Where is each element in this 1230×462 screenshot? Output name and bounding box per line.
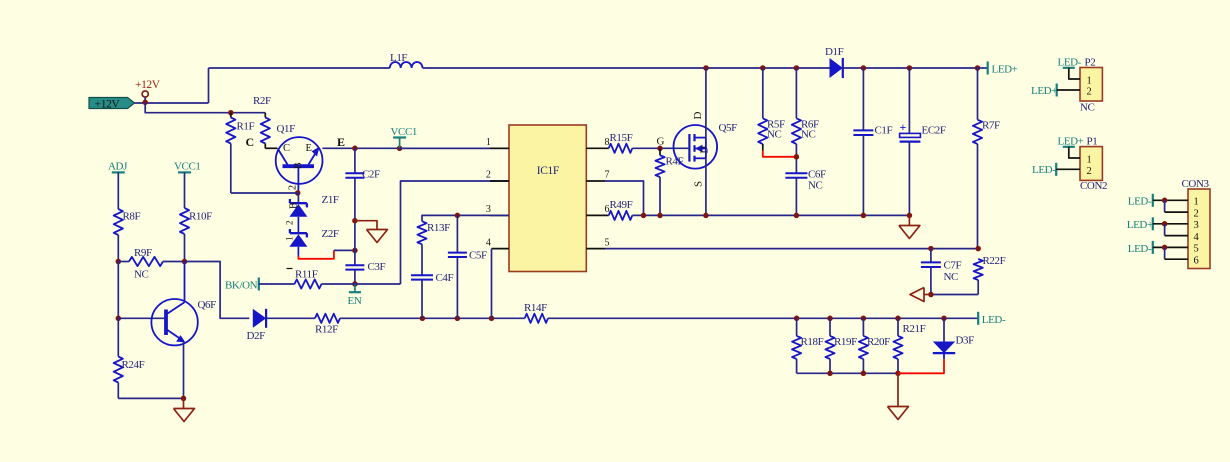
node emitter/ground (181, 396, 187, 402)
svg-text:2: 2 (1194, 208, 1199, 219)
svg-text:LED+: LED+ (1058, 135, 1084, 147)
resistor R18F (796, 318, 798, 336)
svg-text:7: 7 (605, 170, 610, 181)
resistor R10F (180, 208, 189, 234)
node R5F top (760, 65, 766, 71)
resistor R5F (762, 68, 764, 118)
svg-text:1: 1 (1194, 197, 1199, 208)
zener Z2F (290, 232, 307, 234)
node VCC1 stub (397, 146, 403, 152)
svg-text:6: 6 (1194, 255, 1199, 266)
wire pin2 riser (401, 181, 510, 284)
transistor Q1F (276, 137, 323, 184)
resistor R13F (417, 221, 426, 244)
ground left pointing (910, 288, 924, 302)
wire pin5 rail (605, 248, 978, 250)
wire top rail left (209, 67, 390, 69)
svg-text:+12V: +12V (135, 79, 161, 91)
svg-text:D3F: D3F (956, 335, 975, 347)
svg-text:R49F: R49F (610, 199, 633, 211)
wire resistor bank bottom (797, 372, 898, 374)
node R22F top (975, 246, 981, 252)
node R18F top (794, 316, 800, 322)
svg-text:E: E (337, 135, 345, 149)
wire ADJ column down (117, 262, 119, 319)
node ground branch (352, 218, 358, 224)
wire R2F to Q1F collector (265, 147, 277, 149)
svg-text:R2F: R2F (253, 95, 271, 107)
wire CON3 pin2 (1164, 200, 1166, 212)
svg-text:Q1F: Q1F (277, 123, 296, 135)
svg-text:D: D (692, 112, 704, 120)
wire red to C column (334, 249, 355, 251)
wire +12V to riser (135, 102, 209, 104)
power port +12V circle (142, 91, 148, 97)
svg-text:R14F: R14F (524, 302, 547, 314)
svg-text:LED-: LED- (982, 314, 1006, 326)
pin 6 stub (586, 214, 608, 216)
wire +12V down branch (145, 102, 265, 112)
svg-text:R8F: R8F (123, 211, 141, 223)
wire CON3 pin6 (1164, 247, 1166, 259)
svg-text:5: 5 (605, 237, 610, 248)
svg-text:Q5F: Q5F (719, 122, 738, 134)
net label EN stub (354, 284, 356, 292)
pin mark R11F (287, 268, 293, 270)
node EN junction (352, 281, 358, 287)
resistor R22F (974, 259, 983, 280)
wire P2 pin2 (1057, 89, 1080, 91)
svg-text:EC2F: EC2F (922, 125, 946, 137)
ground main (908, 215, 910, 225)
diode D3F (943, 318, 945, 341)
pin 5 stub (586, 248, 605, 250)
net label LED- bar bottom (977, 312, 979, 325)
wire Q6F emitter (183, 342, 185, 398)
resistor R49F (609, 211, 633, 220)
svg-text:C: C (283, 143, 290, 154)
wire pin3 (422, 215, 509, 221)
wire riser to top rail (208, 68, 210, 103)
IC IC1F box (509, 125, 586, 272)
resistor R12F (315, 314, 340, 323)
svg-text:Z1F: Z1F (322, 194, 339, 206)
net label LED+ bar (987, 62, 989, 75)
node R6F bottom red (794, 154, 800, 160)
svg-text:Z2F: Z2F (322, 228, 339, 240)
svg-text:VCC1: VCC1 (174, 161, 201, 173)
svg-text:R7F: R7F (982, 120, 1000, 132)
node +12V junction (142, 100, 148, 106)
capacitor EC2F (908, 68, 910, 133)
node pin4 bottom (489, 316, 495, 322)
node CON3 b (1162, 221, 1168, 227)
wire LED- stub (944, 317, 978, 319)
pin 2 stub (490, 180, 509, 182)
resistor R4F (659, 148, 661, 155)
wire emitter to E node (322, 147, 509, 149)
svg-text:R20F: R20F (867, 336, 890, 348)
svg-text:C7F: C7F (944, 260, 962, 272)
svg-text:5: 5 (1194, 244, 1199, 255)
resistor R11F (295, 279, 322, 288)
svg-text:LED-: LED- (1032, 164, 1056, 176)
svg-text:R19F: R19F (834, 336, 857, 348)
wire P1 pin1 (1069, 147, 1080, 158)
node C6F bottom (794, 213, 800, 219)
svg-text:C1F: C1F (875, 125, 893, 137)
svg-text:NC: NC (767, 129, 782, 141)
node R21F bottom (895, 371, 901, 377)
svg-text:1: 1 (1087, 75, 1092, 86)
pin 3 stub (490, 214, 509, 216)
node C3F top junction (352, 248, 358, 254)
capacitor C6F (785, 172, 807, 174)
diode D1F (830, 58, 843, 78)
svg-text:P2: P2 (1085, 56, 1096, 68)
svg-text:R4F: R4F (666, 156, 684, 168)
ground bank (897, 373, 899, 406)
capacitor C5F (456, 215, 458, 252)
node CON3 a (1162, 198, 1168, 204)
connector P2 box (1080, 68, 1102, 102)
node R19F bottom (827, 371, 833, 377)
wire pin4 riser (491, 249, 493, 319)
node R1F top (228, 110, 234, 116)
wire top rail right (843, 67, 978, 69)
capacitor C2F (354, 148, 356, 173)
node E junction C2F (352, 146, 358, 152)
wire R15F to G (632, 147, 688, 149)
wire P1 pin2 (1056, 168, 1080, 170)
svg-text:+: + (900, 120, 907, 134)
svg-text:3: 3 (1194, 220, 1199, 231)
capacitor C4F (421, 244, 423, 275)
power port VCC1 mid (399, 138, 401, 149)
node R20F bottom (861, 371, 867, 377)
svg-text:IC1F: IC1F (537, 165, 559, 177)
red wire D3F (898, 359, 944, 373)
wire Z1F to Z2F (297, 217, 299, 233)
svg-text:R15F: R15F (610, 132, 633, 144)
svg-text:NC: NC (944, 271, 959, 283)
node C7F bottom (928, 292, 934, 298)
wire P2 pin1 (1069, 68, 1080, 79)
svg-text:CON3: CON3 (1182, 178, 1210, 190)
pin 8 stub (586, 147, 608, 149)
svg-text:G: G (657, 136, 665, 148)
wire R1F bottom to base (231, 192, 298, 194)
pin 1 stub (490, 147, 509, 149)
svg-text:2: 2 (486, 170, 491, 181)
svg-text:R24F: R24F (122, 359, 145, 371)
wire Q5F vertical (705, 138, 707, 159)
node EC2F top (907, 65, 913, 71)
svg-text:1: 1 (285, 237, 295, 241)
svg-text:2: 2 (288, 185, 299, 190)
red wire R5F to R6F (763, 151, 797, 157)
svg-text:2: 2 (1087, 166, 1092, 177)
node drain top (703, 65, 709, 71)
node R6F top (794, 65, 800, 71)
node EC2F bottom (907, 213, 913, 219)
resistor R9F (118, 261, 129, 263)
svg-text:Q6F: Q6F (198, 299, 217, 311)
resistor R8F (114, 209, 123, 235)
node C1F bottom (861, 213, 867, 219)
capacitor C1F (862, 68, 864, 130)
svg-text:EN: EN (348, 295, 362, 307)
net label BK/ON bar (258, 278, 260, 291)
svg-text:NC: NC (134, 269, 149, 281)
svg-text:R22F: R22F (983, 255, 1006, 267)
wire CON3 pin4 (1164, 224, 1166, 236)
svg-text:P1: P1 (1087, 135, 1098, 147)
svg-text:BK/ON: BK/ON (225, 280, 258, 292)
resistor R2F (264, 113, 266, 118)
svg-text:VCC1: VCC1 (391, 126, 418, 138)
ground Q6F (183, 398, 185, 408)
wire Q5F drain (705, 68, 707, 138)
resistor R21F (897, 318, 899, 336)
node R19F top (827, 316, 833, 322)
svg-text:C: C (246, 135, 254, 149)
svg-text:R1F: R1F (237, 121, 255, 133)
svg-text:LED-: LED- (1128, 196, 1152, 208)
wire Z2F bottom (297, 247, 299, 256)
resistor R24F (117, 318, 119, 356)
wire R11F to pin2 riser (322, 283, 401, 285)
node C7F top (928, 246, 934, 252)
wire CON3 pin5 (1153, 246, 1188, 248)
wire collector riser to D2F branch (185, 262, 250, 319)
svg-text:1: 1 (1087, 154, 1092, 165)
svg-text:LED-: LED- (1128, 243, 1152, 255)
transistor Q5F (674, 125, 718, 169)
transistor Q6F (151, 299, 197, 345)
svg-text:LED-: LED- (1058, 56, 1082, 68)
svg-text:NC: NC (1080, 102, 1095, 114)
capacitor C3F (354, 250, 356, 265)
node pin7 join (641, 213, 647, 219)
resistor R7F (977, 68, 979, 120)
svg-text:C4F: C4F (436, 272, 454, 284)
svg-text:R18F: R18F (801, 336, 824, 348)
node G (657, 146, 663, 152)
wire bottom rail 1 (340, 317, 525, 319)
svg-text:C5F: C5F (469, 250, 487, 262)
svg-text:R13F: R13F (427, 222, 450, 234)
svg-text:D1F: D1F (825, 46, 844, 58)
node C5F bottom (455, 316, 461, 322)
node Q6F base (116, 316, 122, 322)
svg-text:LED+: LED+ (1031, 85, 1057, 97)
svg-text:CON2: CON2 (1080, 180, 1107, 192)
wire CON3 pin1 (1153, 199, 1188, 201)
pin 4 stub (492, 248, 510, 250)
connector P1 box (1080, 147, 1102, 181)
wire Q6F collector (184, 262, 186, 303)
svg-text:2: 2 (1087, 87, 1092, 98)
node LED+ / R7F top (975, 65, 981, 71)
wire pin1 to VCC1 (400, 147, 490, 149)
wire to left ground (924, 294, 931, 296)
svg-text:C2F: C2F (362, 169, 380, 181)
svg-text:ADJ: ADJ (108, 161, 128, 173)
svg-text:R9F: R9F (134, 247, 152, 259)
wire top rail middle (423, 67, 830, 69)
resistor R15F (609, 144, 633, 153)
svg-text:R21F: R21F (903, 323, 926, 335)
resistor R6F (795, 68, 797, 118)
svg-text:LED+: LED+ (1127, 219, 1153, 231)
wire Q5F source (705, 158, 707, 215)
resistor R19F (829, 318, 831, 336)
node R20F top (861, 316, 867, 322)
wire D2F to R12F (266, 317, 315, 319)
inductor L1F (390, 62, 423, 68)
node source (703, 213, 709, 219)
wire BK/ON to R11F (259, 283, 295, 285)
svg-text:R11F: R11F (295, 269, 318, 281)
node C5F top (455, 213, 461, 219)
svg-text:R12F: R12F (315, 324, 338, 336)
wire bottom rail 2 (548, 317, 944, 319)
wire CON3 pin3 (1153, 223, 1188, 225)
svg-text:1: 1 (486, 137, 491, 148)
svg-text:B: B (293, 162, 304, 169)
svg-text:NC: NC (808, 180, 823, 192)
svg-text:NC: NC (801, 129, 816, 141)
svg-text:L1F: L1F (390, 52, 407, 64)
resistor R14F (525, 314, 548, 323)
wire emitter bottom (118, 397, 183, 399)
svg-text:D2F: D2F (247, 330, 266, 342)
svg-text:E: E (306, 143, 312, 154)
node D3F top (941, 316, 947, 322)
capacitor C7F (930, 249, 932, 263)
node CON3 c (1162, 245, 1168, 251)
wire C7F bottom (931, 294, 978, 296)
svg-text:4: 4 (486, 237, 491, 248)
node ADJ/R9F (116, 259, 122, 265)
node C4F bottom (420, 316, 426, 322)
node R4F bottom (657, 213, 663, 219)
wire source rail (632, 214, 909, 216)
wire pin7 jog (605, 181, 644, 215)
resistor R1F (230, 113, 232, 118)
power port +12V (89, 98, 135, 109)
svg-text:2: 2 (285, 221, 295, 225)
red wire Z2F to C3F node (298, 250, 334, 258)
ground near C2F (367, 230, 388, 243)
svg-text:R10F: R10F (189, 211, 212, 223)
svg-text:S: S (693, 181, 705, 187)
wire base (118, 317, 164, 319)
connector CON3 box (1188, 189, 1210, 269)
node Q1F base (295, 190, 301, 196)
svg-text:+12V: +12V (95, 98, 121, 110)
wire to ground Q1F area (355, 221, 377, 230)
resistor R20F (862, 318, 864, 336)
node R9F right (182, 259, 188, 265)
svg-text:3: 3 (486, 204, 491, 215)
node C1F top (861, 65, 867, 71)
pin 7 stub (586, 180, 605, 182)
diode D2F (253, 309, 266, 328)
wire to LED+ stub (978, 67, 988, 69)
zener Z1F (297, 193, 299, 203)
svg-text:LED+: LED+ (992, 64, 1018, 76)
node R21F top (895, 316, 901, 322)
svg-text:C3F: C3F (368, 261, 386, 273)
svg-text:B: B (289, 202, 300, 209)
